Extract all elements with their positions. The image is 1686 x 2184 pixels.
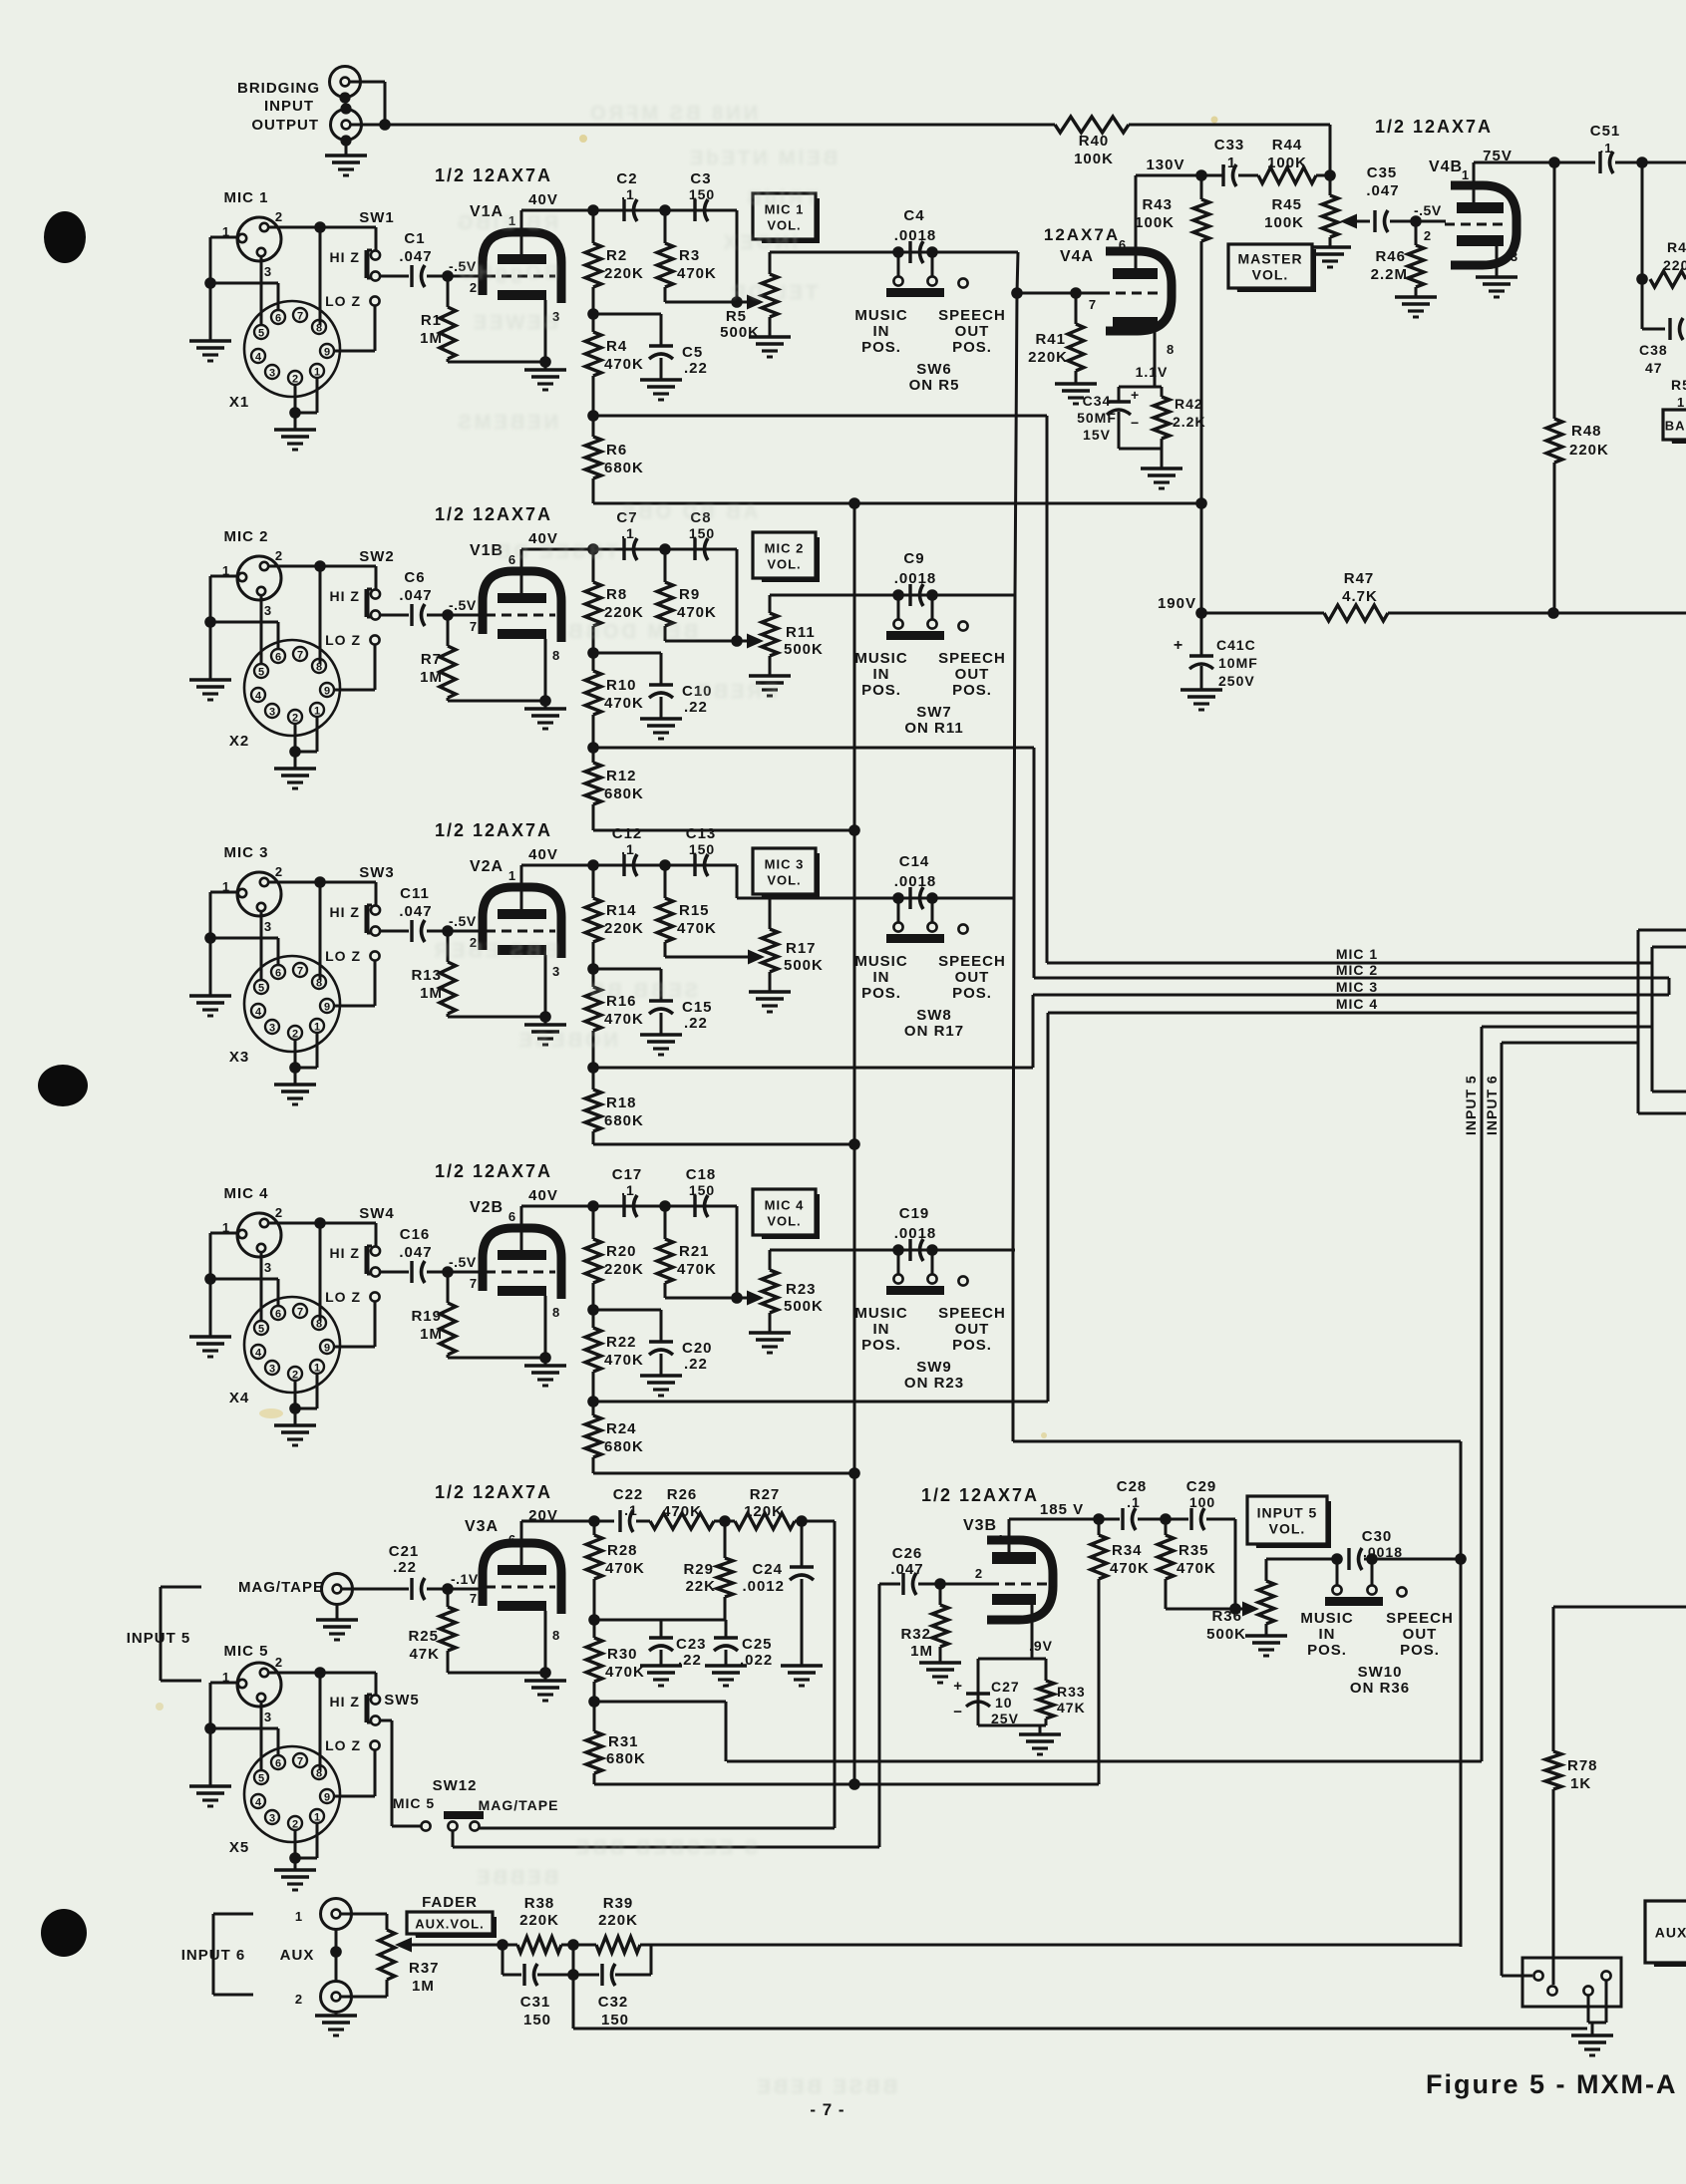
svg-text:8: 8 [316, 323, 322, 335]
capacitor C32 [573, 1974, 599, 1977]
node C4 right [926, 246, 938, 258]
svg-text:POS.: POS. [1307, 1642, 1347, 1659]
svg-text:680K: 680K [604, 1438, 644, 1455]
switch SW4 bracket [365, 1246, 370, 1274]
node ch4 tail at bus [848, 1467, 860, 1479]
svg-text:9: 9 [324, 686, 330, 698]
resistor R40 [1055, 117, 1129, 133]
node wiper V3B [1229, 1603, 1241, 1615]
capacitor C6 ch2 [380, 614, 409, 617]
svg-text:R23: R23 [786, 1281, 817, 1298]
wire socket pins 1-2 to ground ch1 [316, 378, 319, 413]
wire plate rail ch4 [521, 1205, 737, 1208]
svg-text:LO Z: LO Z [325, 632, 361, 648]
svg-text:9: 9 [324, 347, 330, 359]
svg-text:C27: C27 [991, 1679, 1020, 1695]
wire socket pin9 to LO Z ch4 [334, 1346, 375, 1349]
svg-text:BOggHO: BOggHO [457, 262, 558, 284]
wire INPUT5 to V3A net [727, 1760, 1482, 1763]
svg-text:MIC 2: MIC 2 [1336, 962, 1378, 978]
svg-text:1/2 12AX7A: 1/2 12AX7A [435, 504, 552, 524]
node mixer bus at R31 line [848, 1778, 860, 1790]
node XLR pin1 ch4 [204, 1273, 216, 1285]
switch SW1 LO Z contact [370, 296, 379, 305]
svg-text:.1: .1 [1127, 1494, 1141, 1510]
svg-text:IN: IN [1319, 1626, 1336, 1643]
svg-text:C33: C33 [1214, 137, 1245, 154]
node C14 left [892, 892, 904, 904]
wire INPUT6 to connector [1502, 1975, 1532, 1978]
svg-text:C14: C14 [899, 853, 930, 870]
svg-text:3: 3 [269, 368, 275, 380]
svg-text:3: 3 [1050, 1583, 1058, 1598]
svg-text:HI Z: HI Z [330, 904, 360, 920]
ground connector [1571, 2033, 1613, 2036]
svg-text:MIC 1: MIC 1 [223, 189, 268, 206]
resistor R21 ch4 [664, 1206, 667, 1239]
node music bus at C30 [1455, 1553, 1467, 1565]
svg-text:+: + [953, 1678, 963, 1695]
svg-text:.0012: .0012 [742, 1578, 785, 1595]
svg-text:150: 150 [689, 1182, 715, 1198]
svg-text:AUX: AUX [280, 1947, 315, 1964]
svg-text:R12: R12 [606, 768, 637, 784]
svg-text:MIC 4: MIC 4 [765, 1198, 805, 1213]
node ch1 tail at bus [848, 497, 860, 509]
node ch1 tail at B+ riser [1195, 497, 1207, 509]
svg-text:HI Z: HI Z [330, 249, 360, 265]
svg-text:7: 7 [1089, 297, 1097, 312]
svg-text:MAG/TAPE: MAG/TAPE [238, 1579, 324, 1596]
svg-text:.0018: .0018 [894, 873, 937, 890]
svg-text:C24: C24 [752, 1561, 783, 1578]
pot wiper arrow ch2 [747, 634, 764, 649]
svg-text:9: 9 [324, 1343, 330, 1355]
ground R45 [1309, 245, 1351, 248]
svg-text:R15: R15 [679, 902, 710, 919]
capacitor C33 [1238, 174, 1258, 177]
svg-text:AB BD OBS: AB BD OBS [619, 501, 758, 523]
svg-text:.22: .22 [393, 1559, 417, 1576]
svg-text:−: − [1131, 415, 1140, 431]
node wiper ch4 [731, 1292, 743, 1304]
wire X5 pin9 to LO Z [334, 1795, 375, 1798]
svg-text:BEWEE: BEWEE [471, 312, 558, 334]
node C30 left [1331, 1553, 1343, 1565]
svg-text:1: 1 [314, 1363, 320, 1375]
tube V2A triode [483, 887, 561, 958]
resistor R12 ch2 [592, 748, 595, 763]
svg-text:C6: C6 [404, 569, 425, 586]
jack J1 bridging input [330, 67, 361, 98]
svg-text:6: 6 [275, 313, 281, 325]
svg-text:470K: 470K [604, 1011, 644, 1028]
svg-text:220K: 220K [604, 265, 644, 282]
svg-text:MIC 2: MIC 2 [765, 541, 805, 556]
resistor R48 [1553, 162, 1556, 419]
node wiper ch2 [731, 635, 743, 647]
svg-text:2: 2 [275, 1655, 283, 1670]
switch SW5 LO Z contact [370, 1740, 379, 1749]
svg-text:C1: C1 [404, 230, 425, 247]
svg-text:SPEECH: SPEECH [938, 953, 1006, 970]
svg-text:MIC 5: MIC 5 [393, 1795, 435, 1811]
resistor R29 [724, 1521, 727, 1558]
node C24 top [796, 1515, 808, 1527]
svg-text:IN: IN [873, 969, 890, 986]
svg-text:POS.: POS. [861, 682, 901, 699]
svg-text:10MF: 10MF [1218, 655, 1258, 671]
svg-text:47K: 47K [1057, 1700, 1086, 1716]
capacitor C19 ch4 [908, 1239, 911, 1261]
capacitor C28 [1099, 1518, 1120, 1521]
svg-text:3: 3 [552, 964, 560, 979]
svg-text:-.5V: -.5V [449, 1254, 477, 1270]
node socket ground ch3 [289, 1062, 301, 1074]
svg-text:V4A: V4A [1060, 248, 1094, 265]
wire C29 down [1234, 1519, 1237, 1609]
svg-text:POS.: POS. [861, 985, 901, 1002]
connector pin A [1533, 1971, 1542, 1980]
svg-text:R36: R36 [1211, 1608, 1242, 1625]
svg-text:C23: C23 [676, 1636, 707, 1653]
svg-text:INPUT 5: INPUT 5 [1463, 1075, 1479, 1135]
svg-text:R24: R24 [606, 1420, 637, 1437]
svg-text:OUT: OUT [955, 969, 990, 986]
node V3A cathode [539, 1667, 551, 1679]
svg-text:VOL.: VOL. [767, 1214, 801, 1229]
svg-text:R34: R34 [1112, 1542, 1143, 1559]
resistor R6 ch1 [592, 416, 595, 437]
switch SW7 speech contact [958, 621, 967, 630]
switch SW10 stubs [1336, 1559, 1339, 1585]
svg-text:220K: 220K [604, 1261, 644, 1278]
wire pin2 node to socket pin8 ch1 [319, 227, 322, 325]
node R2 top [587, 204, 599, 216]
svg-text:R39: R39 [603, 1895, 634, 1912]
wire INPUT5 top link [1482, 1026, 1652, 1029]
capacitor C41C electrolytic [1200, 613, 1203, 656]
node V3A grid [442, 1583, 454, 1595]
resistor R1 ch1 [447, 276, 450, 307]
ground pot ch4 [749, 1331, 791, 1334]
svg-text:1: 1 [508, 868, 516, 883]
svg-text:9: 9 [324, 1792, 330, 1804]
svg-text:C12: C12 [612, 825, 643, 842]
ground cathode ch2 [544, 701, 547, 709]
svg-text:47K: 47K [409, 1646, 440, 1663]
svg-text:4.7K: 4.7K [1342, 588, 1378, 605]
node R38-R39 [567, 1939, 579, 1951]
svg-text:470K: 470K [604, 1352, 644, 1369]
svg-text:OUT: OUT [955, 1321, 990, 1338]
svg-text:4: 4 [255, 1007, 262, 1019]
connector pin B [1547, 1986, 1556, 1995]
ground XLR ch2 [209, 622, 212, 680]
capacitor C27 electrolytic [966, 1692, 990, 1695]
svg-text:6: 6 [275, 968, 281, 980]
wire XLR pin1 ch1 [210, 236, 237, 239]
svg-text:6: 6 [275, 1309, 281, 1321]
svg-text:C25: C25 [742, 1636, 773, 1653]
svg-text:ON R11: ON R11 [904, 720, 963, 737]
svg-text:MASTER: MASTER [1237, 251, 1302, 267]
svg-text:.047: .047 [890, 1561, 923, 1578]
svg-text:IN: IN [873, 666, 890, 683]
wire MIC3 rise [1032, 995, 1035, 1068]
ground C20 ch4 [640, 1374, 682, 1377]
wire XLR pin1 ch4 [210, 1232, 237, 1235]
node R28 top [588, 1515, 600, 1527]
svg-text:C19: C19 [899, 1205, 930, 1222]
svg-text:V3B: V3B [963, 1517, 997, 1534]
capacitor C30 [1347, 1548, 1350, 1570]
svg-text:R11: R11 [786, 624, 816, 641]
wire cathode return ch2 [447, 698, 450, 701]
wire node to socket pin6 ch2 [210, 621, 278, 624]
svg-text:470K: 470K [677, 604, 717, 621]
svg-text:680K: 680K [604, 785, 644, 802]
svg-text:BBS EBER: BBS EBER [432, 940, 558, 962]
svg-text:MIC 3: MIC 3 [765, 857, 805, 872]
pot wiper arrow ch3 [748, 950, 765, 965]
svg-text:40V: 40V [528, 1187, 558, 1204]
ground R32 [919, 1661, 961, 1664]
resistor R28 [593, 1521, 596, 1535]
resistor R44 [1316, 174, 1330, 177]
pot R36 wiper arrow [1242, 1602, 1259, 1617]
svg-text:POS.: POS. [861, 1337, 901, 1354]
svg-text:1/2 12AX7A: 1/2 12AX7A [435, 1482, 552, 1502]
wire feedback to SW12 [480, 1827, 835, 1830]
node R29 top [719, 1515, 731, 1527]
resistor R38 [517, 1937, 561, 1953]
svg-text:R42: R42 [1175, 396, 1203, 412]
wire music bus to V4A grid [1017, 292, 1100, 295]
svg-text:SW12: SW12 [433, 1777, 478, 1794]
connector outline inner right [1652, 946, 1686, 949]
node C31-C32 [567, 1969, 579, 1981]
wire wiper to arrow [1235, 1608, 1246, 1611]
wire node to X5 pin6 [210, 1727, 278, 1730]
svg-text:NN8 BS MFRO: NN8 BS MFRO [587, 103, 758, 125]
node R41 top [1070, 287, 1082, 299]
punch hole middle [38, 1065, 88, 1106]
resistor R19 ch4 [447, 1272, 450, 1303]
svg-text:2: 2 [1424, 228, 1432, 243]
resistor R10 ch2 [585, 671, 601, 715]
switch SW2 bracket [365, 589, 370, 617]
node 190V [1195, 607, 1207, 619]
resistor R31 [593, 1702, 596, 1731]
svg-text:185 V: 185 V [1040, 1501, 1084, 1518]
svg-text:SW8: SW8 [916, 1007, 952, 1024]
wire socket pins 1-2 to ground ch2 [316, 717, 319, 752]
node pin2 line ch4 [314, 1217, 326, 1229]
node XLR pin1 ch3 [204, 932, 216, 944]
svg-text:X5: X5 [229, 1839, 249, 1856]
wire XLR pin2 to SW ch1 [269, 226, 376, 229]
svg-text:BBSE BEBE: BBSE BEBE [754, 2076, 897, 2098]
svg-text:R20: R20 [606, 1243, 637, 1260]
ground cathode ch1 [544, 362, 547, 370]
switch SW2 HI Z contact [371, 589, 380, 598]
svg-text:-.5V: -.5V [1414, 202, 1442, 218]
svg-text:V3A: V3A [465, 1518, 499, 1535]
switch SW7 bridge bar [886, 631, 944, 640]
wire C31 branch [502, 1945, 505, 1975]
node 75V rail [1548, 156, 1560, 168]
resistor R26 [650, 1513, 714, 1529]
svg-text:+: + [1174, 637, 1183, 654]
svg-text:R7: R7 [421, 651, 442, 668]
tube V2B triode [483, 1228, 561, 1299]
bracket INPUT 6 [212, 1914, 215, 1995]
svg-text:Figure 5 - MXM-A S: Figure 5 - MXM-A S [1426, 2069, 1686, 2099]
resistor R27 [714, 1520, 735, 1523]
svg-text:INPUT: INPUT [264, 98, 314, 115]
bleed-through ghost text [432, 103, 897, 2098]
box BASS (cut) [1668, 415, 1686, 444]
wire 75V rail [1473, 161, 1476, 164]
svg-text:3: 3 [264, 1260, 272, 1275]
svg-text:1/2 12AX7A: 1/2 12AX7A [435, 820, 552, 840]
svg-text:R5: R5 [726, 308, 747, 325]
svg-text:INPUT 5: INPUT 5 [1257, 1505, 1318, 1521]
capacitor C21 [342, 1588, 409, 1591]
svg-text:C13: C13 [686, 825, 717, 842]
svg-text:-.5V: -.5V [449, 597, 477, 613]
svg-text:SW2: SW2 [359, 548, 395, 565]
wire R27 to corner [795, 1520, 835, 1523]
node cathode V4A [1119, 386, 1162, 389]
wire bridging jacks to node [350, 81, 385, 84]
svg-text:SW7: SW7 [916, 704, 952, 721]
svg-text:BRIDGING: BRIDGING [237, 80, 320, 97]
svg-text:1/2 12AX7A: 1/2 12AX7A [1375, 117, 1493, 137]
svg-text:C17: C17 [612, 1166, 643, 1183]
svg-text:470K: 470K [604, 695, 644, 712]
svg-text:R19: R19 [411, 1308, 442, 1325]
resistor R25 [447, 1589, 450, 1607]
node divider ch2 [587, 647, 599, 659]
wire R39 to music bus [651, 1944, 1461, 1947]
svg-text:22K: 22K [685, 1578, 716, 1595]
node cathode ch1 [539, 356, 551, 368]
capacitor C17 ch4 [622, 1195, 625, 1217]
switch SW3 arm contact [371, 926, 380, 935]
node C14 right [926, 892, 938, 904]
svg-text:220K: 220K [1569, 442, 1609, 459]
svg-text:1K: 1K [1570, 1775, 1591, 1792]
wire ch4 tail rail [593, 1472, 854, 1475]
capacitor C9 ch2 [908, 584, 911, 606]
ground R46 [1395, 295, 1437, 298]
node top right rail [1636, 273, 1648, 285]
svg-text:.047: .047 [399, 248, 432, 265]
svg-text:120K: 120K [744, 1503, 784, 1520]
switch SW3 bracket [365, 905, 370, 933]
wire R47 to edge [1553, 612, 1686, 615]
svg-text:680K: 680K [606, 1750, 646, 1767]
svg-text:6: 6 [275, 652, 281, 664]
node R30 bottom [588, 1696, 600, 1708]
wire pot top riser ch2 [769, 595, 772, 613]
svg-text:2: 2 [292, 1029, 298, 1041]
svg-text:BEBBE: BEBBE [474, 1867, 558, 1889]
capacitor C12 ch3 [622, 854, 625, 876]
pot R37 wiper arrow [395, 1938, 412, 1953]
svg-text:BElM NTEdE: BElM NTEdE [687, 148, 838, 169]
node C51 right [1636, 156, 1648, 168]
svg-text:150: 150 [689, 186, 715, 202]
switch SW1 HI Z contact [371, 250, 380, 259]
wire B+ 190V riser [1200, 503, 1203, 613]
svg-text:500K: 500K [1206, 1626, 1246, 1643]
resistor R39 [573, 1944, 596, 1947]
svg-text:MUSIC: MUSIC [854, 650, 907, 667]
wire C32 up [650, 1945, 653, 1975]
resistor R43 [1200, 175, 1203, 199]
svg-text:POS.: POS. [952, 985, 992, 1002]
wire MIC4 rise [1047, 1013, 1050, 1402]
wire XLR5 pin2 to SW5 [269, 1672, 376, 1675]
svg-text:15V: 15V [1083, 427, 1111, 443]
svg-text:MIC 4: MIC 4 [1336, 996, 1378, 1012]
ground V4A cathode circuit [1141, 467, 1182, 469]
svg-text:8: 8 [316, 978, 322, 990]
svg-text:470K: 470K [604, 356, 644, 373]
svg-text:.047: .047 [399, 1244, 432, 1261]
wire XLR pin3 to socket ch4 [260, 1252, 263, 1322]
wire pin2 node to socket pin8 ch4 [319, 1223, 322, 1321]
ground C15 ch3 [640, 1033, 682, 1036]
svg-text:X2: X2 [229, 733, 249, 750]
svg-text:V4B: V4B [1429, 158, 1463, 175]
svg-text:R32: R32 [900, 1626, 931, 1643]
resistor R34 [1098, 1519, 1101, 1535]
svg-text:.22: .22 [684, 1015, 708, 1032]
box MIC 2 VOL. [758, 537, 820, 582]
connector output box [1522, 1958, 1621, 2007]
node ch3 tail at bus [848, 1138, 860, 1150]
jack AUX 2 [321, 1982, 352, 2013]
svg-text:40V: 40V [528, 191, 558, 208]
node R14 top [587, 859, 599, 871]
svg-text:MIC 1: MIC 1 [1336, 946, 1378, 962]
svg-text:.047: .047 [399, 903, 432, 920]
svg-text:C28: C28 [1117, 1478, 1148, 1495]
node C4 left [892, 246, 904, 258]
capacitor C2 ch1 [622, 199, 625, 221]
svg-text:12AX7A: 12AX7A [1044, 225, 1120, 244]
box MIC 3 VOL. [758, 853, 820, 898]
resistor R78 [1552, 1607, 1555, 1751]
svg-text:C35: C35 [1367, 164, 1398, 181]
svg-text:R6: R6 [606, 442, 627, 459]
node grid ch2 [442, 609, 454, 621]
node R15 top [659, 859, 671, 871]
svg-text:R4: R4 [606, 338, 627, 355]
pot R11 ch2 [762, 613, 778, 656]
jack MAG/TAPE [322, 1574, 353, 1605]
box MASTER VOL [1233, 249, 1316, 292]
svg-text:2.2K: 2.2K [1173, 414, 1206, 430]
node tail ch3 [587, 1062, 599, 1074]
node C9 left [892, 589, 904, 601]
stain 5 [156, 1703, 164, 1711]
wire socket pin9 to LO Z ch3 [334, 1005, 375, 1008]
